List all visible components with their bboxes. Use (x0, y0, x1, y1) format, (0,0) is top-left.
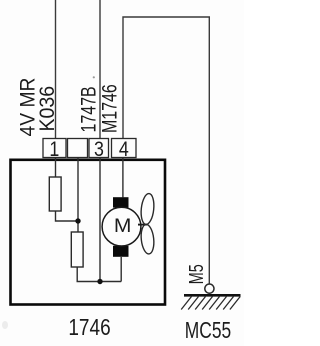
svg-text:1: 1 (49, 137, 59, 161)
svg-text:K036: K036 (36, 86, 59, 132)
svg-text:M1746: M1746 (97, 84, 121, 133)
svg-text:MC55: MC55 (185, 318, 231, 344)
svg-text:M: M (114, 216, 132, 237)
svg-text:4: 4 (119, 137, 129, 161)
svg-text:M5: M5 (185, 264, 208, 284)
svg-text:3: 3 (94, 137, 104, 161)
svg-text:1746: 1746 (68, 315, 110, 340)
